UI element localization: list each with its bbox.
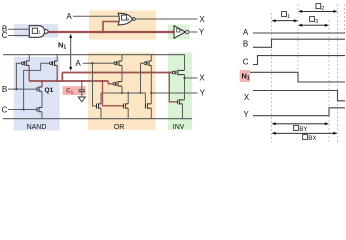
wire A branch to nmos N3 gate (93, 63, 97, 106)
wire C branch to pmos P2 gate (24, 63, 50, 109)
red wire to nmos N4 gate (103, 81, 124, 106)
wire A to pmos P3 gate (83, 62, 114, 64)
highlight box INV transistor section (168, 53, 192, 131)
svg-text:C: C (243, 58, 249, 67)
svg-text:2: 2 (321, 6, 324, 12)
junction dot red bus (41, 80, 43, 82)
dashed gridline t2 (297, 4, 299, 84)
wire red branch to OR gate lower input (103, 22, 120, 33)
red wire to INV gates (169, 73, 177, 102)
wire Y from OR output (151, 92, 197, 94)
svg-text:B: B (2, 85, 7, 94)
red wire pmos P2 drain (56, 65, 58, 81)
junction dot red at OR branch (102, 31, 105, 34)
dimension arrow delay 3 (302, 24, 326, 26)
waveform N1 (250, 72, 345, 82)
svg-text:1: 1 (38, 30, 41, 35)
nmos Q1 (37, 87, 42, 92)
pmos P5 (113, 83, 115, 85)
svg-text:A: A (243, 28, 249, 37)
wire N1 red output of NAND (top) (48, 31, 174, 33)
pmos P3 (114, 62, 116, 64)
inverter U3 delay box 3 (176, 29, 179, 32)
nmos N4 (123, 103, 128, 109)
svg-text:C1: C1 (66, 88, 74, 95)
wire Y output (top) (189, 31, 198, 33)
highlight box INV gate (top) (168, 25, 190, 40)
svg-text:Q1: Q1 (45, 87, 54, 94)
red wire Q1 drain (41, 81, 43, 87)
svg-text:BY: BY (299, 126, 307, 133)
dashed gridline t4 (337, 4, 339, 143)
inverter U3 output bubble (186, 30, 189, 33)
nmos N6 (INV) (178, 99, 185, 104)
red net N1 bus left vertical (61, 73, 63, 82)
nand gate U1 (29, 26, 44, 38)
dimension arrow delay 1 (275, 20, 295, 22)
capacitor C1 (81, 81, 83, 90)
pink highlight box C1 (63, 86, 86, 95)
pmos P1 (21, 62, 23, 64)
wire P3 drain to P5 source (121, 65, 123, 81)
red net N1 bus top line (62, 72, 172, 74)
highlight box OR transistor section (88, 53, 156, 131)
wire B input (top schematic) (8, 28, 29, 30)
highlight box NAND transistor section (14, 57, 60, 131)
waveform A (253, 32, 345, 34)
svg-text:INV: INV (173, 124, 185, 131)
wire C input (top schematic) (8, 35, 29, 37)
red wire pmos P1 drain (28, 65, 30, 81)
pink highlight label N1 (timing) (240, 70, 250, 82)
wire X output (top) (135, 18, 197, 20)
INV output node vertical (184, 75, 186, 100)
dashed gridline right edge (344, 4, 346, 34)
svg-text:Y: Y (199, 28, 205, 37)
svg-text:X: X (199, 74, 205, 83)
wire X from INV output (185, 77, 198, 79)
nmos N3 (97, 103, 102, 109)
svg-text:A: A (66, 12, 72, 21)
svg-text:C: C (2, 105, 8, 114)
nmos N2 (37, 107, 42, 112)
svg-text:2: 2 (127, 17, 130, 22)
svg-text:OR: OR (114, 124, 125, 131)
svg-text:3: 3 (180, 29, 182, 33)
waveform B (253, 39, 345, 47)
highlight box NAND gate (top) (14, 24, 58, 38)
ground symbol below C1 (78, 97, 85, 102)
pmos P2 (50, 62, 52, 64)
wire B branch to pmos P1 gate (16, 63, 21, 89)
red net N1 bus bottom line (29, 80, 108, 82)
svg-text:NAND: NAND (27, 124, 47, 131)
svg-text:Y: Y (243, 110, 249, 119)
wire N5 gate from NOR node (144, 93, 146, 104)
or gate U2 output circle (132, 18, 135, 21)
wire A input to OR gate (73, 15, 119, 17)
svg-text:A: A (75, 59, 81, 68)
OR output node vertical (150, 65, 152, 104)
or gate U2 delay box 2 (122, 15, 127, 20)
dashed gridline t3 (328, 20, 330, 142)
svg-text:Y: Y (200, 89, 206, 98)
pmos P4 (144, 62, 146, 64)
nand gate U1 output bubble (44, 30, 48, 34)
wire C to nmos N2 gate (8, 109, 37, 111)
svg-text:N1: N1 (58, 41, 66, 51)
svg-text:X: X (199, 15, 205, 24)
or gate U2 (118, 13, 132, 25)
highlight box OR gate (top) (89, 11, 156, 40)
GND rail (3, 118, 192, 120)
svg-text:B: B (243, 40, 248, 49)
waveform X (253, 91, 345, 101)
pmos P6 (INV) (172, 71, 174, 73)
nmos N5 (145, 103, 151, 109)
svg-text:X: X (244, 93, 250, 102)
wire B to Q1 gate (8, 88, 37, 90)
wire P5 drain to NOR node (121, 86, 123, 93)
svg-text:3: 3 (315, 19, 318, 25)
nand gate U1 delay box 1 (32, 28, 37, 33)
svg-text:1: 1 (287, 14, 290, 20)
dimension arrow delay BY (275, 123, 326, 125)
VDD rail (3, 54, 185, 56)
NOR node wire (101, 92, 145, 94)
inverter U3 (174, 26, 186, 38)
svg-text:C: C (2, 31, 8, 40)
dimension arrow delay BX (275, 132, 334, 134)
waveform Y (253, 108, 345, 116)
dimension arrow delay 2 (302, 10, 335, 12)
red wire to pmos P5 gate (108, 81, 113, 84)
waveform C (253, 56, 345, 65)
wire P4 gate from NOR node (141, 63, 145, 93)
svg-text:BX: BX (308, 135, 316, 142)
dashed gridline t1 (271, 13, 273, 142)
